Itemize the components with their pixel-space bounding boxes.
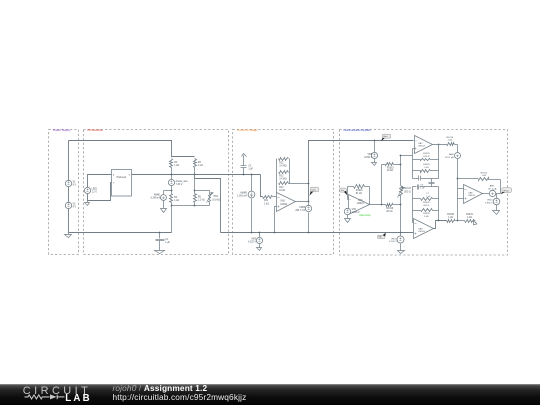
region box: Power Supply (dashed) [49,128,79,254]
resistor R1621 51k [348,185,370,196]
svg-text:1.2 kΩ: 1.2 kΩ [198,199,205,201]
resistor R1626 3k [413,164,439,172]
wire R1630-R1631 [455,220,465,222]
ground tilted after R1631 [471,220,477,226]
svg-text:20 kΩ: 20 kΩ [387,170,393,172]
svg-text:LM324: LM324 [418,146,425,148]
svg-text:1.2 V: 1.2 V [92,192,98,194]
svg-text:VM07: VM07 [391,238,397,240]
wire bottom rail right segment [221,232,414,234]
svg-text:Anode_wire: Anode_wire [176,180,189,183]
wire OA5 plus input [275,207,277,233]
svg-text:VM10: VM10 [487,200,493,202]
node junction pot column [400,155,402,234]
svg-text:Vout: Vout [383,135,387,138]
wire AM6 to lower junction [457,159,459,221]
wire OA7 minus stub [413,148,415,150]
svg-text:Photocell: Photocell [117,176,127,179]
svg-text:R1626: R1626 [423,164,430,166]
feedback right vertical [289,159,291,184]
svg-text:AM6: AM6 [449,153,454,156]
capacitor C7 [426,179,435,199]
svg-text:R1616: R1616 [386,208,393,210]
feedback box OA9 left vertical [412,187,414,223]
wire OA8 input stubs [458,189,464,199]
svg-text:9.294 V: 9.294 V [364,157,372,159]
svg-text:620 Ω: 620 Ω [424,156,430,158]
wire gain column vertical [381,165,383,205]
named node flag VFout [501,188,512,195]
svg-text:R1630: R1630 [447,214,454,216]
svg-text:1 kΩ: 1 kΩ [448,217,453,219]
node junction R3/main wire [194,174,196,176]
voltmeter VM04 [295,205,311,212]
photocell module X1 [112,170,132,197]
svg-text:C7: C7 [426,193,430,195]
svg-text:LM324: LM324 [468,195,475,197]
svg-text:R1631: R1631 [466,214,473,216]
svg-text:Vout: Vout [312,189,317,192]
node junction bottom join [194,205,196,207]
resistor R1625 620 [413,153,439,161]
svg-text:1 kΩ: 1 kΩ [174,200,179,202]
node junction feedback/output [308,183,310,203]
footer bar [0,384,540,405]
svg-text:7.46 V: 7.46 V [176,184,183,186]
svg-text:Instrumentation Amplifier: Instrumentation Amplifier [343,129,371,132]
svg-text:1 kΩ: 1 kΩ [467,217,472,219]
ammeter AMM5 [237,191,255,198]
node junction R1630/R1631 [457,220,459,222]
wire ammeter AMM5 drop [251,175,253,233]
svg-text:1 kΩ: 1 kΩ [482,175,487,177]
op-amp OA8 (mid right) [464,185,483,204]
resistor R1629 3k [413,209,439,219]
region box: Transimpedance stage (dashed) [233,129,334,254]
wire OA6 minus feedback [348,187,349,200]
feedback box OA7 left vertical [412,149,414,179]
resistor R4 [170,194,180,203]
svg-text:20 kΩ: 20 kΩ [386,211,392,213]
ammeter AM7 [483,185,501,197]
svg-text:3.4 MΩ: 3.4 MΩ [279,165,287,167]
wire OA6 output row [370,204,386,206]
node junction minus row [457,178,459,180]
resistor R5 [194,194,205,203]
svg-text:R11: R11 [264,200,269,202]
wire OA7 output [433,144,447,146]
svg-text:PR1: PR1 [214,196,219,198]
wire OA9 minus stub [413,222,414,224]
svg-text:127.2 µA: 127.2 µA [488,187,497,190]
node junction OA7 output/feedback [438,144,440,146]
svg-text:R1621: R1621 [356,190,363,192]
resistor R13 [279,171,289,181]
wire LED source loop to photocell pin2 [88,183,112,201]
svg-text:R1623: R1623 [481,172,488,174]
svg-text:VM3: VM3 [251,239,256,241]
named node flag Vout (instr input) [381,134,391,141]
wire pot column [401,156,413,233]
resistor R12 [279,158,289,168]
named node flag Vout (middle) [309,187,318,196]
wire jog to right branch [195,175,221,233]
svg-text:129.2 µA: 129.2 µA [445,156,454,159]
resistor R1615 20k [382,163,401,173]
resistor R2 [170,159,180,180]
op-amp OA5 [277,193,296,212]
svg-text:VFout: VFout [503,189,509,192]
power flag and capacitor C2 [241,154,254,175]
svg-text:OA9: OA9 [418,227,423,230]
resistor R11 [263,196,277,206]
svg-text:1 kΩ: 1 kΩ [264,203,269,205]
svg-text:C1: C1 [165,239,169,241]
named node flag VB- [377,233,385,239]
svg-text:OA7: OA7 [418,142,423,145]
svg-text:10 kΩ: 10 kΩ [279,190,285,192]
ground LED source [85,201,90,206]
svg-text:R2: R2 [174,162,178,164]
wire OA9 output [434,221,447,229]
svg-text:R5: R5 [198,197,202,199]
node junction AMM5 top [251,174,253,176]
wire LDR top [195,191,210,194]
node junction VM8 tap [374,140,376,142]
svg-text:51 kΩ: 51 kΩ [356,193,362,195]
svg-text:1 kΩ: 1 kΩ [174,165,179,167]
wire R1621 to output [369,187,371,205]
resistor R1623 1k [479,172,501,180]
capacitor C6 [413,185,439,190]
wire AM6 drop [457,145,459,153]
photoresistor PR1 [207,193,221,203]
wire to voltmeter VM04 [308,202,310,233]
node junction gain column [381,204,383,206]
svg-text:LM324: LM324 [357,203,365,205]
voltage source V2 [65,202,76,208]
svg-text:LED1: LED1 [92,189,98,191]
resistor R1631 1k [465,214,476,223]
voltage source LED1 1.2V [84,187,98,193]
voltmeter VM8 [364,141,377,166]
resistor R1630 1k [447,214,455,223]
svg-text:VM8: VM8 [367,154,372,156]
node junction VM04 rail [308,232,310,234]
capacitor C5 feedback [413,176,439,181]
op-amp OA6 [349,195,370,215]
wire output riser / top rail [309,141,414,202]
wire top rail from supply to R2/R3 [69,141,195,157]
svg-text:AMM1: AMM1 [154,194,161,197]
wire minus row [458,178,479,180]
resistor R1616 20k [386,204,401,214]
svg-text:293.7 mV: 293.7 mV [295,210,305,212]
feedback left vertical [276,159,278,193]
wire R5/LDR bottom join [172,203,210,206]
svg-text:1 µF: 1 µF [420,187,425,189]
capacitor C1 [155,233,171,254]
wire main to R11 [261,175,263,197]
svg-text:500 Ω: 500 Ω [404,191,410,193]
svg-text:Power Supply: Power Supply [53,128,71,132]
svg-text:LAB: LAB [65,393,92,404]
node junction AMM5 bottom [251,232,253,234]
svg-text:LM324: LM324 [418,231,425,233]
svg-text:1 kΩ: 1 kΩ [198,165,203,167]
voltmeter VM10 [485,194,500,215]
svg-text:Input Amp: Input Amp [359,214,371,217]
feedback box OA7 right vertical [438,145,440,179]
svg-text:620 Ω: 620 Ω [423,205,429,207]
svg-text:R12: R12 [279,162,284,164]
node junction R4 bottom [171,205,173,207]
CircuitLab logo [0,384,110,405]
ground VS5 [345,215,351,223]
ground power supply [65,233,72,238]
resistor R3 [194,159,203,175]
svg-text:VS5: VS5 [352,209,357,211]
label Input Amp (green) [359,214,371,217]
named node flag Vin [340,188,348,195]
svg-text:V2: V2 [73,204,77,206]
svg-text:R1628: R1628 [423,202,430,204]
svg-text:1 µF: 1 µF [248,169,253,171]
node junction C2/main [243,174,245,176]
svg-text:OA5: OA5 [280,200,285,203]
svg-text:6.230 V: 6.230 V [389,241,397,243]
svg-text:AMM5: AMM5 [240,191,247,194]
svg-text:C2: C2 [248,166,252,168]
wire OA5 output [296,201,309,203]
svg-text:1 µF: 1 µF [165,242,170,244]
potentiometer R1617 500 [398,186,412,198]
resistor R1628 620 [413,198,439,208]
main wire photocell output [132,174,261,176]
svg-text:9 V: 9 V [73,184,77,186]
svg-text:3.4 MΩ: 3.4 MΩ [279,179,287,181]
voltage source V1 [65,180,76,186]
node junction C1 tap [159,232,161,234]
region box: Photodiode (dashed) [84,128,229,254]
svg-text:6.248 mA: 6.248 mA [151,197,161,200]
svg-text:10.8 kΩ: 10.8 kΩ [212,199,220,201]
wire R1623 to output node [500,180,502,194]
voltmeter VM3 on rail [248,232,263,251]
svg-text:6.232 V: 6.232 V [248,242,256,244]
svg-text:9 V: 9 V [73,207,77,209]
feedback box OA9 right vertical [438,187,440,221]
wire power-supply vertical rail [68,141,70,233]
svg-text:1 kΩ: 1 kΩ [448,140,453,142]
svg-text:VM04: VM04 [299,207,306,209]
svg-text:LM324: LM324 [280,204,288,206]
svg-text:OA8: OA8 [468,191,473,194]
resistor R1618 1k [447,137,458,146]
svg-text:R1629: R1629 [423,213,430,215]
svg-text:R1617: R1617 [404,188,411,190]
svg-text:3 kΩ: 3 kΩ [424,167,429,169]
svg-text:R1618: R1618 [447,137,454,139]
op-amp OA9 (bottom) [414,219,434,239]
resistor R14 [279,182,309,192]
wire stub to AMM1 [164,191,172,195]
svg-text:R1615: R1615 [387,167,394,169]
svg-text:AM7: AM7 [490,185,495,188]
svg-text:Current to Voltage: Current to Voltage [237,129,258,132]
voltmeter Anode_wire 7.46V [168,179,188,186]
svg-text:VB-: VB- [379,237,383,239]
svg-text:R14: R14 [279,187,284,189]
op-amp OA7 (top) [415,136,433,154]
svg-text:0.992 V: 0.992 V [485,203,493,205]
svg-text:R3: R3 [198,162,202,164]
svg-text:3 kΩ: 3 kΩ [424,216,429,218]
svg-text:Photodiode: Photodiode [88,128,104,132]
node junction R2/main wire [171,174,173,176]
svg-text:OA6: OA6 [358,199,363,202]
ground AMM1 [161,201,167,213]
voltmeter VM07 on rail [389,233,404,254]
svg-text:1 µF: 1 µF [426,196,431,198]
wire bottom rail left segment [69,232,172,234]
wire photocell left to LED source [88,175,112,188]
wire anode meter to R4 [171,186,173,194]
svg-text:R13: R13 [279,176,284,178]
node junction OA5 plus rail [274,232,276,234]
node junction ammeter tap [171,190,173,192]
svg-text:1.006 V: 1.006 V [352,212,360,214]
svg-text:R1625: R1625 [423,153,430,155]
node junction OA9 output/feedback [438,220,440,222]
wire R5 top [194,179,196,194]
ammeter AMM1 [151,194,167,201]
svg-text:R4: R4 [174,197,178,199]
ammeter AM6 [445,153,461,159]
voltage source VS5 [344,208,360,214]
wire R4 bottom [171,203,173,233]
node junction LDR tap [194,190,196,192]
svg-text:V1: V1 [73,181,77,183]
svg-text:1.091 mA: 1.091 mA [237,194,247,197]
region box: Instrumentation Amplifier (dashed) [340,129,508,255]
